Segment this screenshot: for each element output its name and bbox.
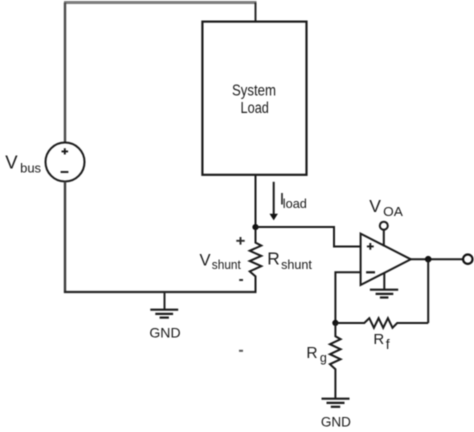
label R_g [306,345,327,365]
op-amp U1 [361,234,411,285]
voltage source V_bus [46,143,85,182]
svg-text:Load: Load [241,100,269,117]
resistor R_g [330,323,341,398]
wire op-amp minus input [335,272,360,323]
current arrow I_load [270,182,278,221]
svg-text:OA: OA [383,204,403,219]
wire bottom horizontal [64,291,257,293]
label System Load [232,82,276,117]
svg-text:shunt: shunt [281,258,312,272]
label I_load [280,189,307,211]
output terminal open circle [463,255,472,264]
svg-text:GND: GND [321,415,351,430]
svg-text:f: f [386,336,390,352]
wire drop into system load box [255,3,257,23]
svg-text:System: System [232,82,276,99]
stray dash mark [239,350,243,352]
op-amp negative supply pin [383,273,385,290]
svg-text:R: R [267,249,279,269]
svg-text:load: load [283,197,307,211]
node output [425,256,432,263]
resistor R_shunt [250,229,262,292]
wire output down to R_f [427,259,429,323]
ground (left GND) [150,310,178,318]
wire box bottom to shunt node [255,175,257,228]
svg-text:V: V [369,196,381,216]
label V_OA [369,196,403,219]
label V_shunt [200,250,242,272]
op-amp positive supply pin to V_OA [380,222,388,247]
wire left vertical upper [64,3,66,143]
label R_shunt [267,249,312,272]
svg-text:V: V [200,250,211,269]
svg-text:bus: bus [20,161,41,176]
node junction at shunt top [252,224,258,230]
resistor R_f [335,318,428,328]
wire op-amp output [411,258,463,260]
svg-text:GND: GND [149,324,180,340]
ground (op-amp) [370,290,398,298]
wire ground tap [164,292,166,310]
ground (R_g GND) [322,399,350,407]
wire top bus (gray) [64,1,257,4]
shunt polarity plus [236,237,244,245]
wire left vertical lower [64,182,66,294]
svg-text:R: R [373,331,384,348]
shunt polarity minus [239,279,243,281]
label R_f [373,331,389,352]
svg-text:shunt: shunt [212,258,241,272]
label V_bus [5,152,41,176]
svg-text:V: V [5,152,18,173]
wire node to op-amp plus input [256,227,361,247]
node junction feedback [332,320,338,326]
svg-text:g: g [320,351,327,365]
system load box [202,22,306,175]
svg-text:R: R [306,345,317,362]
